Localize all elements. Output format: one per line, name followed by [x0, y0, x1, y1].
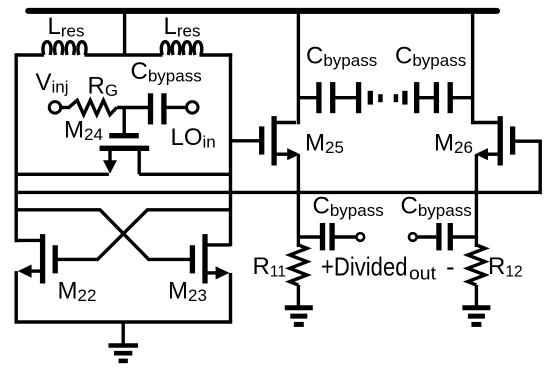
wire: tail ground rail	[15, 320, 233, 323]
svg-text:Vinj: Vinj	[36, 69, 69, 97]
wire: VDD node to C2	[298, 96, 316, 99]
wire: M25 drain to VDD	[297, 11, 300, 124]
ground (tail)	[108, 343, 138, 348]
wire: left tank node vertical (node A)	[15, 53, 18, 242]
svg-text:Lres: Lres	[164, 13, 201, 41]
svg-text:M26: M26	[434, 130, 473, 158]
wire: gate of M24	[122, 106, 125, 136]
capacitor C1 Cbypass (in box)	[148, 93, 153, 124]
wire: R12 to ground	[475, 285, 478, 308]
wire: cross-couple node A to M23 gate	[16, 210, 190, 260]
wire: M22 drain to node A	[16, 239, 40, 242]
svg-text:LOin: LOin	[171, 124, 216, 152]
wire: tank top-right segment	[200, 53, 233, 56]
terminal Divided out +	[356, 233, 364, 241]
svg-text:Lres: Lres	[48, 13, 85, 41]
svg-text:M25: M25	[305, 130, 344, 158]
svg-text:R11: R11	[253, 253, 286, 281]
ground (R11)	[285, 305, 313, 310]
svg-text:Cbypass: Cbypass	[401, 192, 472, 220]
wire: terminal to C7	[418, 235, 437, 238]
svg-text:RG: RG	[88, 73, 119, 101]
capacitor C2 Cbypass (top-left)	[316, 82, 321, 113]
wire: Vinj to RG	[61, 106, 70, 109]
terminal Vinj	[49, 102, 61, 114]
wire: M26 drain to VDD	[471, 11, 474, 124]
wire: C4 to C5	[419, 96, 435, 99]
resistor RG	[69, 100, 117, 114]
wire: LO gate rail to M26 gate	[16, 141, 540, 192]
wire: C5 to VDD node	[452, 96, 473, 99]
transistor M25	[259, 126, 264, 154]
wire: M23 source to ground rail	[229, 273, 232, 322]
ground (R12)	[462, 305, 490, 310]
wire: node B to M25 gate	[231, 139, 262, 142]
wire: ground stem (tail)	[121, 322, 124, 346]
svg-text:M23: M23	[168, 278, 207, 306]
svg-text:Cbypass: Cbypass	[395, 43, 466, 71]
wire: right tank node vertical (node B)	[229, 53, 232, 246]
capacitor C6 Cbypass (bottom-left)	[320, 223, 325, 250]
wire: C6 to terminal	[334, 235, 356, 238]
capacitor C5 Cbypass (top-right)	[434, 82, 439, 113]
svg-text:Cbypass: Cbypass	[131, 58, 202, 86]
ellipsis bar (left)	[378, 94, 383, 102]
wire: M26 source to output (-)	[475, 154, 478, 247]
wire: C7 to output-	[453, 235, 477, 238]
wire: M24 drain line to node B	[139, 173, 230, 176]
wire: tank top-left segment	[16, 53, 44, 56]
terminal Divided out -	[409, 233, 417, 241]
svg-text:-: -	[446, 251, 455, 281]
wire: M22 source to ground rail	[15, 271, 18, 322]
svg-text:M22: M22	[58, 278, 97, 306]
wire: tank top-middle segment	[85, 53, 163, 56]
wire: M24 source line to node A	[16, 173, 109, 176]
capacitor C7 Cbypass (bottom-right)	[436, 223, 441, 250]
svg-text:out: out	[409, 264, 436, 284]
capacitor C3 (fading, left)	[356, 82, 361, 113]
resistor R12	[468, 245, 485, 285]
svg-text:+Divided: +Divided	[321, 251, 408, 281]
terminal LOin	[187, 102, 199, 114]
power rail VDD (top)	[28, 8, 497, 14]
transistor M24	[109, 133, 139, 138]
ellipsis bar (right)	[394, 94, 399, 102]
svg-text:M24: M24	[64, 117, 103, 145]
wire: RG to Cbypass (gate node)	[117, 106, 149, 109]
capacitor C4 (fading, right)	[402, 91, 407, 105]
svg-text:R12: R12	[488, 253, 523, 281]
svg-text:Cbypass: Cbypass	[306, 43, 377, 71]
inductor L2 Lres (right)	[161, 42, 201, 55]
wire: Cbypass to LOin terminal	[166, 106, 187, 109]
transistor M26	[510, 126, 515, 154]
resistor R11	[290, 245, 307, 285]
wire: cross-couple node B to M22 gate	[57, 210, 231, 260]
wire: R11 to ground	[297, 285, 300, 308]
wire: VDD to inductor center tap	[123, 11, 126, 57]
wire: M23 drain to node B	[205, 243, 231, 246]
transistor M23	[202, 234, 207, 283]
inductor L1 Lres (left)	[43, 42, 86, 55]
wire: output+ to C6	[298, 235, 320, 238]
transistor M22	[40, 234, 45, 283]
wire: M25 source to output (+)	[297, 154, 300, 247]
svg-text:Cbypass: Cbypass	[313, 192, 384, 220]
wire: C2 to C3	[335, 96, 357, 99]
